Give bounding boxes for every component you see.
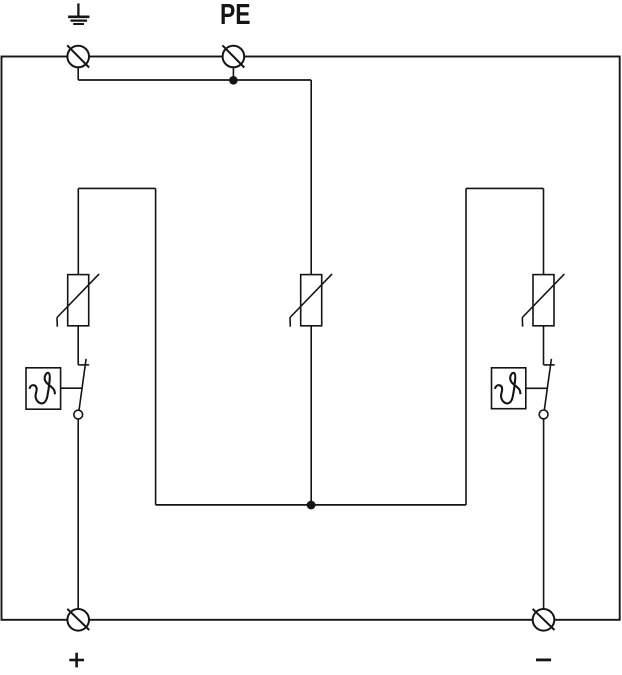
wire left varistor bottom to switch [77,326,79,365]
wire thermal link left [61,387,82,389]
switch right fixed contact [544,364,555,366]
wire middle varistor top [310,80,312,275]
terminal ground top [67,45,89,67]
varistor right [522,274,564,327]
wire middle varistor bottom [310,326,312,502]
wire left switch to plus terminal [77,419,79,609]
node junction dot bottom rail [307,501,316,510]
wire right switch to minus terminal [543,419,545,610]
node junction dot PE rail [229,76,238,85]
switch left blade [79,359,86,410]
switch right contact circle [539,410,548,419]
thermal sensor box left [26,368,61,409]
label plus [69,653,84,668]
wire right U top rail [466,187,544,189]
wire left varistor top drop [77,188,79,274]
wire left U top rail [78,187,155,189]
wire right varistor bottom to switch [543,326,545,365]
wire thermal link right [526,387,547,389]
wire bottom rail [156,504,466,506]
switch right blade [544,359,551,410]
wire PE rail [78,79,311,81]
wire right U inner vertical [465,188,467,505]
terminal PE top [222,45,244,67]
terminal plus bottom [67,609,89,631]
wire PE terminal drop [232,67,234,80]
wire left U inner vertical [155,188,157,505]
varistor middle [290,274,332,327]
thermal sensor box right [492,368,526,409]
terminal minus bottom [533,609,555,631]
switch left fixed contact [78,364,89,366]
varistor left [57,274,99,327]
switch left contact circle [74,410,83,419]
wire right varistor top drop [543,188,545,274]
svg-text:PE: PE [220,0,251,31]
ground symbol [68,3,89,24]
label minus [536,659,551,662]
wire ground terminal drop [77,67,79,80]
